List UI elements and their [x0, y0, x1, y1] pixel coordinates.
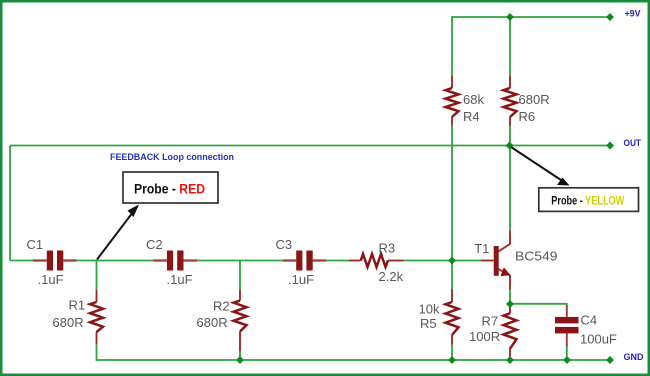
resistor R6: [504, 75, 550, 125]
capacitor C3: [276, 237, 327, 287]
resistor R5: [419, 289, 459, 345]
svg-text:FEEDBACK Loop connection: FEEDBACK Loop connection: [110, 152, 234, 162]
svg-text:680R: 680R: [519, 92, 550, 107]
junction at +9V R6: [506, 13, 514, 21]
svg-text:R3: R3: [379, 241, 396, 256]
junction emitter node: [506, 300, 514, 308]
junction R2 ground: [236, 356, 244, 364]
junction C4 ground: [563, 356, 571, 364]
svg-text:2.2k: 2.2k: [379, 269, 404, 284]
transistor T1: [474, 231, 557, 290]
svg-text:C2: C2: [146, 237, 163, 252]
svg-text:Probe - RED: Probe - RED: [134, 181, 205, 196]
junction R5 ground: [448, 356, 456, 364]
svg-text:Probe - YELLOW: Probe - YELLOW: [551, 194, 625, 208]
wire emitter node down to R7: [509, 304, 511, 308]
svg-text:C4: C4: [581, 313, 598, 328]
wire feedback horizontal (OUT net): [10, 145, 610, 147]
probe YELLOW annotation arrow: [511, 147, 570, 186]
power +9V: [606, 9, 641, 21]
node OUT: [606, 138, 641, 149]
svg-text:OUT: OUT: [624, 138, 642, 149]
wire C3 to R3: [326, 260, 349, 262]
capacitor C2: [146, 237, 197, 287]
resistor R3: [349, 241, 404, 285]
svg-text:.1uF: .1uF: [38, 272, 64, 287]
wire input row left segment: [10, 260, 33, 262]
svg-text:68k: 68k: [463, 92, 484, 107]
resistor R2: [197, 289, 247, 351]
capacitor C4: [555, 305, 617, 347]
svg-text:R4: R4: [463, 109, 480, 124]
resistor R1: [53, 290, 104, 344]
svg-text:+9V: +9V: [625, 9, 642, 20]
ground: [606, 352, 644, 364]
wire R2 top: [239, 261, 241, 290]
wire C2 to C3: [197, 260, 283, 262]
svg-text:C1: C1: [27, 237, 44, 252]
wire ground rail: [240, 359, 610, 361]
svg-text:R6: R6: [519, 109, 536, 124]
svg-text:680R: 680R: [53, 315, 84, 330]
junction base node: [448, 257, 456, 265]
svg-text:10k: 10k: [419, 302, 440, 317]
wire R1 top: [96, 261, 98, 291]
svg-text:T1: T1: [474, 241, 489, 256]
svg-text:R5: R5: [420, 316, 437, 331]
wire feedback left vertical: [9, 146, 11, 261]
resistor R4: [446, 75, 485, 125]
svg-text:100uF: 100uF: [580, 332, 617, 347]
svg-text:.1uF: .1uF: [288, 272, 314, 287]
wire R1 bottom corner to ground rail: [97, 344, 241, 360]
svg-text:BC549: BC549: [515, 249, 558, 264]
svg-text:R2: R2: [213, 299, 230, 314]
svg-text:C3: C3: [276, 237, 293, 252]
wire R6 bottom to OUT node: [509, 126, 511, 146]
wire emitter to node: [509, 290, 511, 305]
svg-text:R1: R1: [69, 298, 86, 313]
probe RED annotation arrow: [97, 205, 139, 260]
svg-text:100R: 100R: [469, 329, 500, 344]
wire C4 bottom to ground rail: [566, 346, 568, 361]
wire base node down to R5: [451, 261, 453, 289]
wire R5 bottom to ground rail: [451, 345, 453, 360]
probe YELLOW annotation box: [539, 188, 639, 212]
wire +9V rail: [452, 16, 610, 18]
wire R4 bottom to base node: [451, 126, 453, 261]
svg-text:.1uF: .1uF: [167, 272, 193, 287]
capacitor C1: [27, 237, 77, 287]
svg-text:R7: R7: [482, 314, 499, 329]
wire C1 to C2: [77, 260, 154, 262]
wire +9V down to R4: [451, 16, 453, 75]
resistor R7: [469, 306, 517, 360]
wire R2 bottom: [239, 351, 241, 360]
probe RED annotation box: [123, 172, 218, 203]
wire OUT node to collector: [509, 146, 511, 231]
svg-text:680R: 680R: [197, 315, 228, 330]
wire emitter node to C4: [510, 304, 567, 306]
junction R7 ground: [506, 356, 514, 364]
svg-text:GND: GND: [624, 352, 644, 363]
wire R3 to base node: [404, 260, 482, 262]
junction OUT collector: [506, 142, 514, 150]
wire R6 top: [509, 17, 511, 75]
